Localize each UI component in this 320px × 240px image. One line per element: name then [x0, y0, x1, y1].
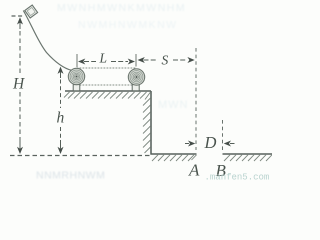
svg-text:MWN: MWN	[158, 99, 189, 111]
H top arrow	[17, 17, 23, 24]
h dimension line	[60, 72, 62, 149]
dashed vertical line A	[195, 48, 197, 150]
svg-text:h: h	[57, 110, 65, 127]
top level dashed mark	[12, 15, 23, 17]
svg-text:H: H	[12, 76, 25, 93]
L dimension right tick	[135, 54, 137, 67]
floor right segment	[223, 153, 273, 155]
svg-text:NNMRHNWM: NNMRHNWM	[36, 170, 105, 182]
table right edge	[150, 91, 152, 154]
belt bottom line	[77, 84, 137, 86]
dashed vertical line B	[222, 120, 224, 152]
left pulley	[68, 68, 84, 84]
block on ramp	[25, 5, 38, 18]
svg-text:S: S	[162, 53, 169, 68]
S right arrow (points right to dashed line)	[173, 59, 187, 61]
floor hatch right	[224, 155, 272, 161]
S left arrow (points left to tick)	[138, 57, 145, 63]
right pulley stand	[132, 85, 139, 91]
table right edge hatch	[143, 98, 151, 153]
floor left segment	[150, 153, 196, 155]
h bottom arrow	[58, 147, 64, 154]
D left arrow	[185, 143, 189, 145]
table top line	[65, 90, 151, 92]
svg-text:L: L	[99, 51, 108, 66]
left pulley stand	[73, 85, 80, 91]
h top arrow	[58, 67, 64, 74]
H dimension line	[19, 22, 21, 149]
floor hatch left	[152, 155, 197, 161]
right pulley	[128, 69, 144, 85]
L left arrow	[78, 59, 85, 65]
H bottom arrow	[17, 147, 23, 154]
svg-text:MWNHMWNKMWNHM: MWNHMWNKMWNHM	[57, 2, 186, 14]
svg-text:.manfen5.com: .manfen5.com	[205, 173, 270, 183]
floor level dashed line (left)	[10, 155, 150, 157]
L right arrow	[111, 61, 128, 63]
D right arrow	[230, 143, 235, 145]
svg-text:A: A	[188, 160, 200, 179]
svg-text:NWMHNWMKNW: NWMHNWMKNW	[78, 19, 178, 31]
svg-text:D: D	[204, 133, 217, 152]
L dimension left tick	[76, 54, 78, 67]
ramp curve	[23, 11, 72, 71]
table top hatch	[64, 92, 151, 100]
belt top line	[77, 67, 137, 69]
